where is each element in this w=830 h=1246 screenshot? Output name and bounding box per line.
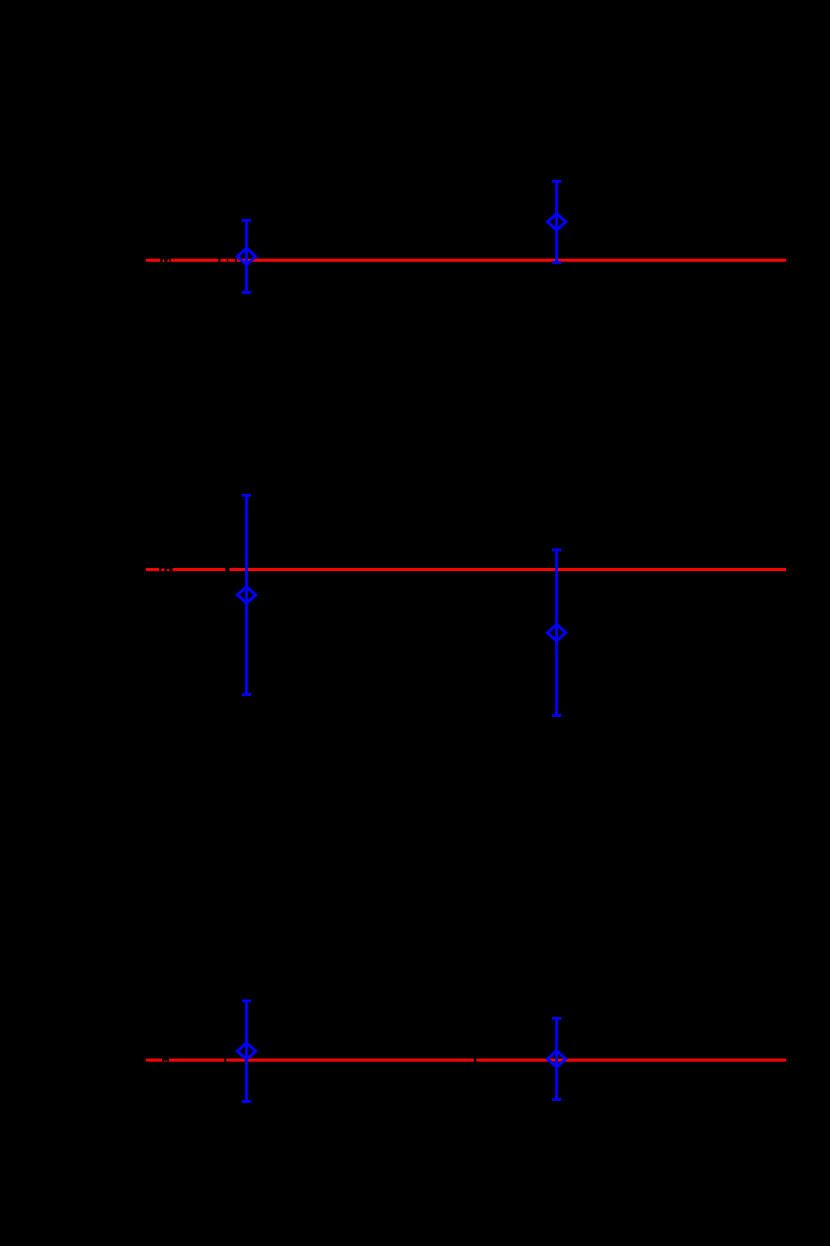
error bar point 3 left (subplot 3, x=246)	[237, 1001, 255, 1102]
diamond marker P2R	[548, 624, 566, 641]
error bar point 1 left (subplot 1, x=246)	[237, 220, 255, 292]
red reference line 2 (subplot 2)	[146, 568, 786, 571]
black text cutout gaps over line 3	[162, 1057, 476, 1064]
red glyph-hole wedges in line 1 gap	[162, 259, 170, 262]
red reference line 1 (subplot 1, y=0 line)	[146, 259, 786, 262]
diamond marker P2L	[237, 587, 255, 604]
black text cutout gaps over line 1	[160, 257, 237, 264]
red glyph-hole wedges in line 3 gap	[164, 1060, 168, 1062]
error bar point 1 right (subplot 1, x=556)	[548, 181, 566, 262]
error bar point 3 right (subplot 3, x=556)	[548, 1018, 566, 1099]
error bar point 2 left (subplot 2, x=246)	[237, 495, 255, 694]
diamond marker P1R	[548, 214, 566, 231]
error bar point 2 right (subplot 2, x=556)	[548, 550, 566, 716]
diamond marker P1L	[237, 248, 255, 265]
red reference line 3 (subplot 3)	[146, 1059, 786, 1062]
diamond marker P3L	[237, 1043, 255, 1060]
diamond marker P3R	[548, 1051, 566, 1068]
red glyph-hole wedges in line 2 gap	[161, 568, 170, 571]
black text cutout gaps over line 2	[159, 566, 229, 573]
